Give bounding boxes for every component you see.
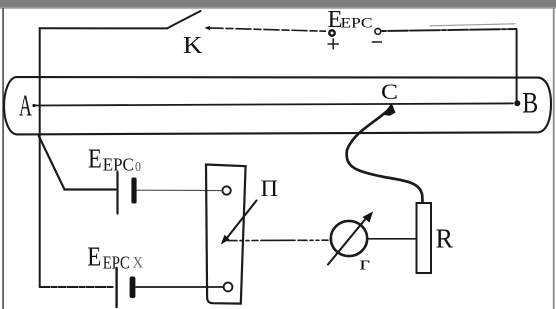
svg-text:A: A — [19, 88, 32, 123]
svg-text:C: C — [381, 79, 398, 104]
svg-text:K: K — [183, 33, 203, 59]
svg-text:EPC: EPC — [103, 154, 134, 174]
svg-text:B: B — [522, 88, 538, 120]
svg-text:R: R — [436, 222, 454, 253]
svg-text:E: E — [88, 143, 102, 174]
svg-text:П: П — [261, 176, 279, 202]
svg-text:X: X — [133, 254, 144, 271]
svg-text:EPC: EPC — [341, 15, 373, 31]
svg-text:г: г — [360, 254, 371, 275]
svg-text:0: 0 — [135, 159, 141, 174]
svg-text:EPC: EPC — [103, 253, 130, 273]
svg-text:E: E — [87, 241, 101, 272]
